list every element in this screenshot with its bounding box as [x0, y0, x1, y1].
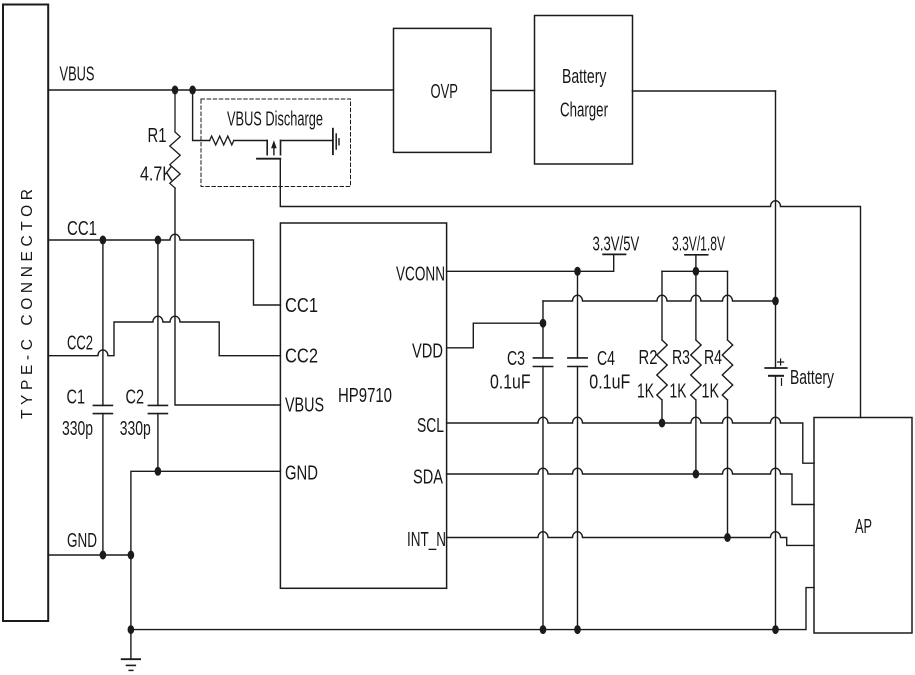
wire CC2 connector to HP9710: [48, 316, 280, 356]
svg-text:C1: C1: [67, 387, 86, 409]
wire VBUS connector to OVP: [48, 89, 393, 91]
junction dot rail / ground column: [128, 625, 135, 634]
power rail 3.3V/5V: [603, 253, 625, 255]
svg-text:C4: C4: [597, 348, 615, 370]
power rail 3.3V/1.8V: [685, 254, 708, 256]
svg-text:VBUS: VBUS: [60, 64, 95, 86]
svg-text:R2: R2: [639, 347, 658, 369]
svg-text:0.1uF: 0.1uF: [589, 372, 630, 394]
wire HP9710 GND pin to ground column: [131, 471, 281, 629]
svg-text:Charger: Charger: [560, 100, 608, 122]
svg-text:HP9710: HP9710: [338, 385, 392, 407]
junction dot VDD / C3: [540, 319, 547, 328]
capacitor C3: [542, 301, 544, 630]
ground (discharge, sideways): [332, 129, 334, 155]
svg-text:VBUS Discharge: VBUS Discharge: [227, 109, 323, 131]
wire ground rail (bottom): [131, 588, 814, 630]
svg-text:VBUS: VBUS: [285, 395, 324, 417]
wire INT_N to AP: [447, 532, 814, 546]
transistor Q1 drain stub: [280, 141, 282, 155]
resistor R2: [657, 271, 667, 423]
svg-text:TYPE-C CONNECTOR: TYPE-C CONNECTOR: [19, 189, 36, 419]
svg-text:Battery: Battery: [562, 66, 606, 88]
wire 3.3V/1.8V to pull-up bar: [662, 255, 728, 271]
svg-text:VDD: VDD: [412, 341, 443, 363]
wire OVP to Battery Charger: [491, 90, 535, 92]
junction dot rail / C3: [540, 625, 547, 634]
svg-text:SCL: SCL: [417, 415, 444, 437]
svg-text:SDA: SDA: [413, 467, 443, 489]
wire CC1 connector to HP9710: [48, 234, 280, 305]
wire VBUS to discharge resistor: [193, 90, 210, 141]
wire Battery Charger to battery column: [632, 90, 775, 92]
wire VDD to C3: [447, 323, 543, 348]
transistor Q1 gate bar: [257, 158, 280, 160]
HP9710 controller U1: [280, 223, 446, 588]
resistor R3: [691, 271, 701, 474]
svg-text:Battery: Battery: [790, 367, 834, 389]
svg-text:GND: GND: [285, 463, 318, 485]
svg-text:VCONN: VCONN: [396, 264, 445, 286]
AP block U4: [814, 418, 912, 634]
svg-text:1K: 1K: [637, 381, 654, 403]
svg-text:CC1: CC1: [67, 218, 97, 240]
svg-text:1K: 1K: [702, 381, 720, 403]
battery minus mark: [781, 379, 783, 386]
junction dot GND pin / C2: [155, 467, 162, 476]
svg-text:R1: R1: [148, 125, 167, 147]
resistor R1: [170, 90, 180, 188]
resistor R4: [722, 271, 732, 537]
battery plus sign: [778, 359, 784, 365]
Type-C connector box J1: [3, 5, 48, 622]
svg-text:0.1uF: 0.1uF: [490, 372, 531, 394]
svg-text:330p: 330p: [120, 418, 151, 440]
svg-text:330p: 330p: [62, 418, 93, 440]
svg-text:C2: C2: [126, 387, 145, 409]
svg-text:AP: AP: [855, 516, 872, 538]
VBUS Discharge dashed box: [201, 99, 351, 187]
wire Q1 drain to local ground: [281, 140, 333, 142]
wire Q1 gate to AP (discharge control): [280, 159, 860, 418]
svg-text:R4: R4: [704, 347, 722, 369]
Battery Charger block U3: [535, 16, 633, 165]
junction dot GND / C1: [100, 551, 107, 560]
transistor Q1 body arrow: [273, 148, 275, 155]
junction dot rail / C4: [574, 625, 581, 634]
junction dot GND / ground column: [128, 551, 135, 560]
wire R1 bottom to HP9710 VBUS pin: [175, 188, 280, 405]
wire discharge resistor to Q1 source: [234, 140, 267, 142]
junction dot SCL / R2: [659, 419, 666, 428]
wire SDA to AP: [447, 468, 814, 504]
svg-text:4.7K: 4.7K: [140, 164, 174, 186]
battery BT1 column: [775, 91, 777, 630]
wire charger rail to C3 top: [543, 295, 776, 301]
capacitor C2: [157, 240, 159, 471]
OVP block U2: [394, 28, 492, 152]
junction dot SDA / R3: [693, 470, 700, 479]
junction dot 1.8V rail / R3: [693, 267, 700, 276]
svg-text:R3: R3: [672, 347, 690, 369]
svg-text:CC2: CC2: [67, 333, 93, 355]
svg-text:GND: GND: [67, 530, 97, 552]
wire VCONN to 3.3V/5V rail: [447, 254, 614, 271]
junction dot rail / battery: [772, 625, 779, 634]
battery BT1 plates: [765, 367, 787, 369]
wire SCL to AP: [447, 417, 814, 463]
svg-text:1K: 1K: [670, 381, 687, 403]
wire GND connector: [48, 554, 131, 556]
svg-text:C3: C3: [507, 348, 525, 370]
resistor R5 (discharge): [210, 136, 234, 145]
svg-text:3.3V/5V: 3.3V/5V: [593, 234, 640, 256]
junction dot VBUS / discharge branch: [189, 86, 196, 95]
capacitor C1: [102, 240, 104, 555]
junction dot VCONN / C4: [574, 267, 581, 276]
junction dot rail / battery column: [772, 297, 779, 306]
svg-text:3.3V/1.8V: 3.3V/1.8V: [672, 234, 725, 256]
transistor Q1 source stub: [266, 141, 268, 155]
svg-text:CC1: CC1: [285, 295, 318, 317]
ground (main): [130, 630, 132, 660]
junction dot VBUS / R1: [172, 86, 179, 95]
junction dot CC1 / C1: [100, 236, 107, 245]
junction dot INT_N / R4: [724, 533, 731, 542]
svg-text:CC2: CC2: [285, 346, 318, 368]
capacitor C4: [577, 271, 579, 629]
svg-text:OVP: OVP: [431, 81, 459, 103]
svg-text:INT_N: INT_N: [407, 529, 446, 551]
junction dot CC1 / C2: [155, 236, 162, 245]
